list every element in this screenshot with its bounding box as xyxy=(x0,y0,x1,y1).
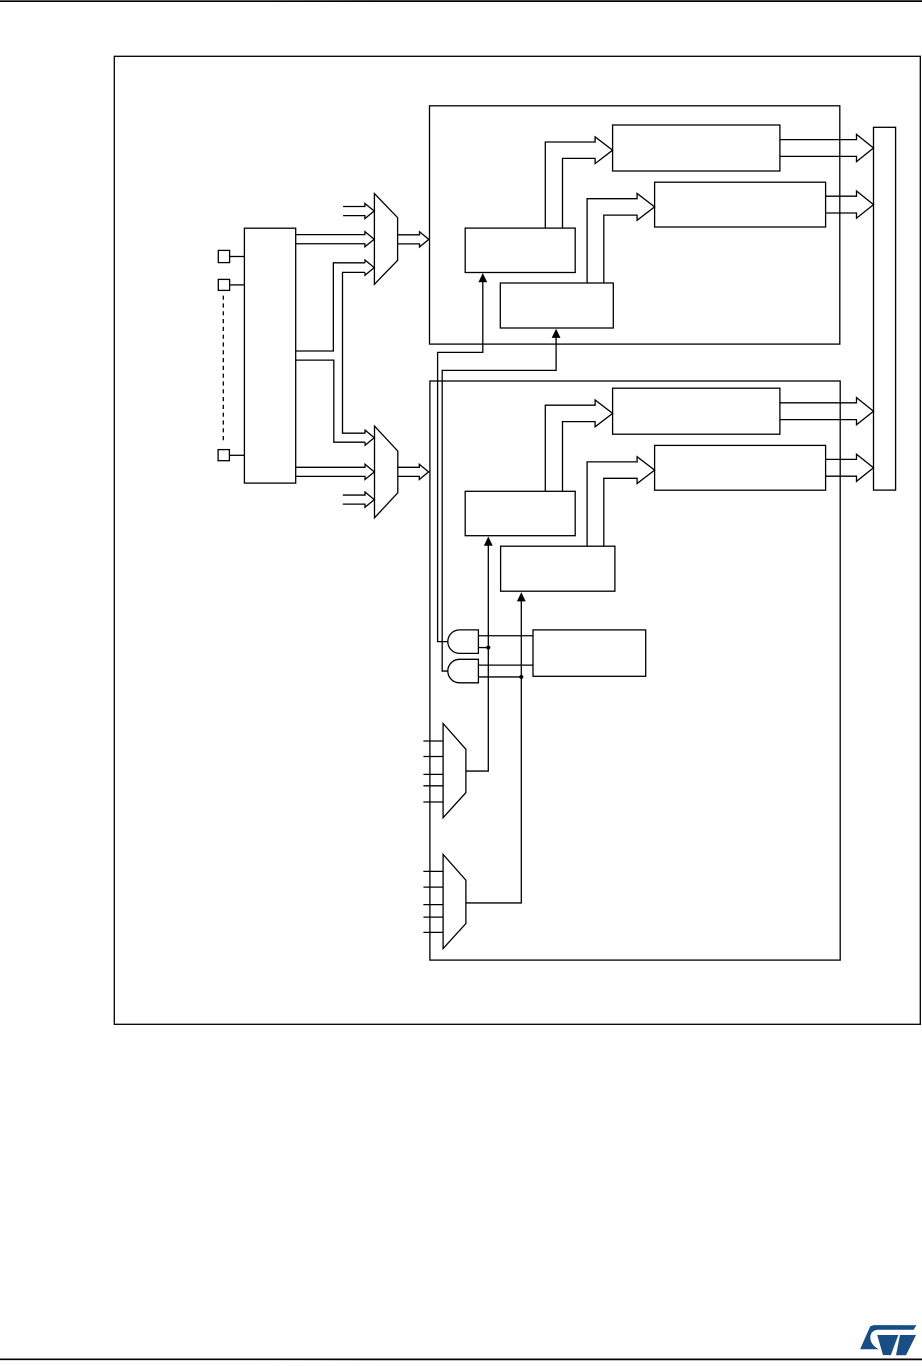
arrow: counter E to register bus xyxy=(780,398,874,425)
ellipsis (dashed) more pins xyxy=(222,296,224,444)
arrow: internal trigger to mux M2 xyxy=(343,492,375,507)
wire: block I to gate G1 input xyxy=(478,635,533,637)
wire: gate G1 input tap xyxy=(478,647,488,649)
arrowhead: mux M2 upper input xyxy=(365,430,374,445)
wire: mux M3 input 2 xyxy=(423,756,443,758)
arrow: auto-reload B to register bus xyxy=(826,191,874,218)
arrowhead: into control D xyxy=(552,329,561,338)
arrow: counter A to register bus xyxy=(780,134,874,161)
arrowhead: mux M1 lower input xyxy=(365,260,374,275)
and-gate G2 (lower enable) xyxy=(448,659,479,683)
register: control high (D) xyxy=(500,283,613,328)
register: prescaler low (G) xyxy=(465,491,575,535)
wire: mux M3 input 5 xyxy=(423,801,443,803)
wire: mux M3 input 1 xyxy=(423,740,443,742)
ST logo xyxy=(860,1325,916,1355)
block: slave mode control (I) xyxy=(533,630,646,676)
arrow: control H to auto-reload F xyxy=(587,457,655,547)
wire: pin block to mux M1 lower input (upper rail) xyxy=(296,263,365,351)
block: GPIO pin selection (left) xyxy=(244,228,295,483)
figure frame xyxy=(114,56,920,1024)
wire: block I to gate G2 input xyxy=(478,664,533,666)
arrow: prescaler G to counter E xyxy=(545,400,612,491)
wire: pin-n to pin block xyxy=(229,454,244,456)
mux M1 (upper input select) xyxy=(374,194,397,285)
pin pad 2 xyxy=(218,279,229,290)
arrow: prescaler C to counter A xyxy=(545,137,612,228)
wire: pin1 to pin block xyxy=(230,256,245,258)
junction: gate G1 tap xyxy=(486,645,490,649)
wire: mux M3 output up to prescaler G xyxy=(466,545,488,771)
register: prescaler high (C) xyxy=(465,228,575,272)
wire: gate G1 output up to prescaler C xyxy=(438,282,483,642)
header rule xyxy=(0,0,922,2)
wire: pin2 to pin block xyxy=(230,284,245,286)
wire: pin block to mux M2 input (lower rail) xyxy=(296,360,365,442)
wire: gate G2 input tap xyxy=(478,676,521,678)
register: auto-reload high (B) xyxy=(655,182,826,227)
arrow: control D to auto-reload B xyxy=(587,194,655,284)
arrow: mux M1 output to upper box xyxy=(398,232,429,247)
block: clock/trigger controller box (upper) xyxy=(430,106,840,344)
wire: gate G2 output up to control D xyxy=(442,337,556,671)
wire: mux M3 input 3 xyxy=(423,773,443,775)
mux M2 (lower input select) xyxy=(375,426,398,518)
pin pad 1 xyxy=(218,250,229,262)
wire: mux M4 input 5 xyxy=(423,931,443,933)
wire: mux M4 input 2 xyxy=(423,886,443,888)
mux M3 (channel A source select) xyxy=(443,724,466,818)
wire: shared net between mux M1 and mux M2 (lower rail) xyxy=(343,272,366,433)
mux M4 (channel B source select) xyxy=(443,854,466,948)
arrow: auto-reload F to register bus xyxy=(826,454,874,481)
pin pad n xyxy=(218,450,229,461)
register: auto-reload low (F) xyxy=(655,445,826,490)
register: counter high (A) xyxy=(613,125,780,171)
block: capture/compare channel box (lower) xyxy=(430,381,840,960)
arrow: pin block bus to mux M2 xyxy=(296,464,375,479)
footer rule xyxy=(0,1358,922,1360)
arrowhead: into prescaler G xyxy=(484,537,493,546)
junction: gate G2 tap xyxy=(519,675,523,679)
register: control low (H) xyxy=(501,546,615,591)
wire: mux M4 output up to control H xyxy=(466,601,521,903)
arrowhead: into control H xyxy=(517,592,526,601)
wire: mux M4 input 3 xyxy=(423,904,443,906)
wire: mux M3 input 4 xyxy=(423,785,443,787)
arrow: pin block bus to mux M1 xyxy=(296,232,375,247)
arrowhead: into prescaler C xyxy=(478,273,487,282)
and-gate G1 (upper enable) xyxy=(448,630,479,654)
block: register/bus interface (tall right) xyxy=(874,127,896,490)
register: counter low (E) xyxy=(613,388,780,434)
wire: mux M4 input 4 xyxy=(423,916,443,918)
arrow: mux M2 output to lower box xyxy=(398,464,429,479)
wire: mux M4 input 1 xyxy=(423,870,443,872)
arrow: internal clock to mux M1 xyxy=(343,203,374,218)
